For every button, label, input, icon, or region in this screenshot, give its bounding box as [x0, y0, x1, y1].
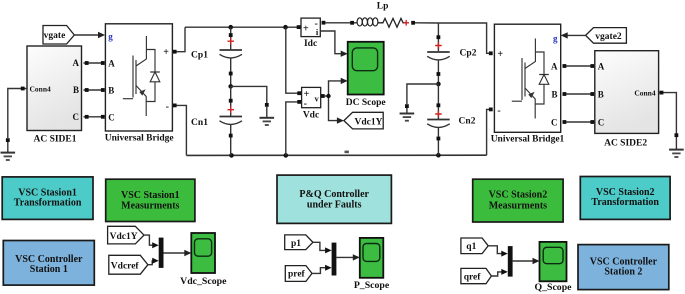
wire mux M3 to Q_Scope — [513, 258, 540, 264]
wire vgate to g — [74, 32, 105, 38]
svg-text:DC Scope: DC Scope — [346, 98, 386, 108]
wire phase A left — [84, 61, 105, 65]
svg-text:Transformation: Transformation — [14, 197, 82, 208]
from tag Vdcref — [109, 255, 148, 274]
wire p1 to mux M2 — [313, 242, 332, 253]
wire bottom rail — [186, 151, 486, 158]
svg-text:q1: q1 — [466, 242, 476, 252]
wire phase C left — [84, 115, 105, 119]
wire top rail right to U2 + — [438, 23, 492, 55]
block Universal Bridge1 U2 — [491, 24, 565, 144]
block Universal Bridge U1 — [105, 24, 174, 144]
svg-text:Universal Bridge: Universal Bridge — [105, 133, 174, 143]
svg-text:vgate: vgate — [44, 31, 66, 41]
svg-text:qref: qref — [464, 273, 482, 283]
svg-text:Vdc1Y: Vdc1Y — [110, 232, 138, 242]
svg-text:VSC Stasion2: VSC Stasion2 — [489, 190, 548, 201]
svg-text:Vdc: Vdc — [303, 110, 319, 120]
svg-text:g: g — [108, 32, 113, 42]
svg-text:-: - — [304, 98, 307, 109]
from tag pref — [285, 266, 312, 282]
wire Conn4 to ground G4 — [659, 91, 679, 137]
wire q1 to mux M3 — [488, 246, 508, 257]
mux M3 — [508, 246, 513, 277]
wire mux M1 to Vdc_Scope — [164, 250, 192, 256]
wire vgate2 to g — [561, 32, 586, 38]
wire phase A right — [563, 64, 595, 68]
block voltage measurement Vdc — [297, 87, 324, 120]
svg-text:Q_Scope: Q_Scope — [534, 282, 572, 293]
capacitor Cn2 — [427, 84, 475, 155]
wire top rail left — [185, 25, 298, 30]
svg-text:C: C — [73, 112, 80, 122]
svg-text:Lp: Lp — [377, 2, 389, 12]
node capacitor midpoint 2 — [436, 82, 441, 87]
wire mux M2 to P_Scope — [336, 254, 359, 260]
capacitor Cn1 — [191, 86, 242, 155]
wire pref to mux M2 — [312, 265, 332, 274]
wire Vdc v to DC Scope in2 and Vdc1Y — [325, 78, 348, 124]
goto tag vgate2 — [586, 28, 627, 44]
svg-text:A: A — [551, 62, 558, 72]
scope DC Scope — [346, 42, 386, 108]
svg-text:Vdc_Scope: Vdc_Scope — [180, 276, 227, 287]
svg-text:B: B — [551, 90, 557, 100]
wire Vdc1Y to mux M1 — [144, 235, 159, 248]
subsystem VSC Stasion1 Transformation — [2, 177, 93, 220]
IGBT/diode icon U1 — [123, 36, 160, 116]
wire phase C right — [563, 120, 595, 124]
IGBT/diode icon U2 — [512, 39, 549, 119]
wire Conn4 to ground — [6, 87, 27, 142]
subsystem VSC Controller Station 2 — [578, 245, 669, 290]
svg-text:-: - — [497, 106, 500, 117]
svg-text:A: A — [73, 58, 80, 68]
svg-text:Station 1: Station 1 — [30, 264, 68, 275]
svg-text:+: + — [303, 24, 309, 35]
scope Q_Scope — [534, 242, 572, 293]
svg-text:AC SIDE1: AC SIDE1 — [33, 135, 76, 145]
svg-text:Station 2: Station 2 — [604, 267, 642, 278]
svg-text:Conn4: Conn4 — [634, 89, 656, 98]
svg-text:B: B — [108, 86, 114, 96]
goto tag Vdc1Y — [344, 112, 383, 129]
svg-text:B: B — [598, 90, 604, 100]
svg-text:+: + — [163, 47, 169, 58]
subsystem AC SIDE1 — [27, 46, 82, 145]
block current measurement Idc — [297, 18, 326, 49]
svg-text:C: C — [108, 112, 115, 122]
svg-text:Measurments: Measurments — [489, 200, 547, 211]
wire rail to Vdc + — [286, 27, 298, 93]
svg-text:VSC Stasion1: VSC Stasion1 — [121, 190, 180, 201]
svg-text:Vdc1Y: Vdc1Y — [355, 117, 383, 127]
svg-text:A: A — [108, 59, 115, 69]
svg-text:under Faults: under Faults — [307, 200, 362, 211]
svg-text:VSC Stasion2: VSC Stasion2 — [596, 187, 655, 198]
svg-text:AC SIDE2: AC SIDE2 — [604, 138, 647, 148]
mux M2 — [332, 243, 337, 276]
svg-text:C: C — [598, 118, 605, 128]
scope P_Scope — [354, 238, 390, 291]
wire phase B right — [563, 92, 595, 96]
svg-text:P_Scope: P_Scope — [354, 280, 390, 291]
svg-text:P&Q Controller: P&Q Controller — [299, 189, 369, 200]
subsystem AC SIDE2 — [595, 51, 659, 149]
svg-text:C: C — [551, 118, 558, 128]
wire qref to mux M3 — [491, 269, 507, 276]
wire midpoint2 to ground G3 — [405, 84, 438, 108]
subsystem VSC Controller Station 1 — [3, 241, 94, 286]
svg-text:Vdcref: Vdcref — [111, 261, 140, 271]
from tag qref — [461, 268, 492, 283]
svg-text:Cp2: Cp2 — [460, 48, 477, 58]
wire phase B left — [84, 88, 105, 92]
wire midpoint to ground G2 — [231, 86, 269, 106]
wire U1 - to bottom rail — [173, 104, 187, 156]
svg-text:Universal Bridge1: Universal Bridge1 — [491, 134, 565, 144]
wire Vdcref to mux M1 — [148, 258, 159, 265]
svg-text:+: + — [497, 49, 503, 60]
svg-text:v: v — [314, 93, 319, 103]
from tag p1 — [285, 235, 313, 250]
from tag q1 — [461, 238, 488, 254]
svg-text:pref: pref — [288, 270, 306, 280]
wire bottom rail to U2 - — [487, 108, 493, 156]
wire Idc i to DC Scope in1 — [320, 31, 347, 57]
goto tag vgate — [43, 26, 74, 45]
svg-text:Idc: Idc — [304, 39, 317, 49]
svg-text:p1: p1 — [291, 239, 301, 249]
svg-text:Cp1: Cp1 — [191, 50, 208, 60]
svg-text:Measurments: Measurments — [121, 201, 179, 212]
svg-text:Conn4: Conn4 — [30, 85, 52, 94]
scope Vdc_Scope — [180, 233, 227, 287]
subsystem VSC Stasion2 Transformation — [580, 177, 670, 220]
subsystem VSC Stasion2 Measurments — [473, 179, 563, 222]
wire U1 + to top rail — [173, 27, 185, 53]
svg-text:g: g — [553, 34, 558, 44]
subsystem P&Q Controller under Faults — [277, 175, 391, 223]
from tag Vdc1Y — [108, 226, 144, 244]
svg-text:A: A — [598, 62, 605, 72]
ground G2 — [260, 107, 275, 125]
wire Vdc - to bottom rail — [286, 102, 298, 155]
svg-text:Cn2: Cn2 — [459, 116, 476, 126]
inductor Lp with series resistor — [325, 2, 438, 28]
svg-text:-: - — [166, 102, 169, 113]
capacitor Cp2 — [427, 23, 476, 84]
subsystem VSC Stasion1 Measurments — [106, 179, 195, 221]
ground G1 — [1, 142, 16, 160]
svg-text:Cn1: Cn1 — [191, 118, 208, 128]
mux M1 — [159, 238, 164, 268]
node capacitor midpoint 1 — [228, 84, 233, 89]
ground G4 — [669, 137, 684, 157]
svg-text:vgate2: vgate2 — [595, 32, 622, 42]
ground G3 — [400, 108, 415, 121]
svg-text:Transformation: Transformation — [591, 197, 659, 208]
capacitor Cp1 — [191, 27, 242, 86]
svg-text:B: B — [73, 85, 79, 95]
